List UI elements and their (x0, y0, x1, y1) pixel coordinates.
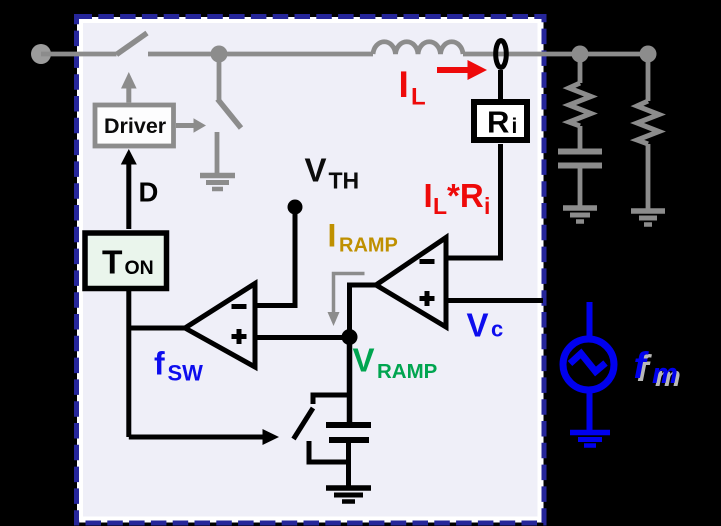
wire Vramp node to ramp capacitor (347, 337, 353, 425)
wire input to switch S1 (41, 52, 117, 57)
wire U2 minus input to Vth (255, 210, 295, 306)
Iramp direction arrow (gray) (328, 274, 365, 327)
svg-text:T: T (102, 245, 123, 282)
switch S1 (high-side, open arm) (117, 33, 148, 55)
op-amp U2 (fsw comparator) (185, 284, 255, 368)
ground (AC source, blue) (570, 433, 610, 446)
switching node junction (211, 46, 228, 63)
ground (low-side switch) (200, 176, 235, 190)
inductor L (373, 42, 463, 54)
wire to discharge switch with arrow (129, 435, 264, 440)
label IL*Ri (red) (424, 177, 491, 219)
wire S1 to switching node (148, 52, 219, 57)
Ton block (85, 233, 167, 289)
svg-text:V: V (467, 307, 489, 344)
ground (output branch 1) (563, 208, 597, 222)
svg-text:L: L (433, 193, 447, 219)
output node 2 (640, 46, 657, 63)
wire Ton output down (126, 291, 131, 437)
capacitor Cout plate bottom (558, 163, 602, 169)
svg-text:I: I (328, 218, 337, 254)
Ri box (474, 102, 527, 140)
label Vth (305, 152, 360, 194)
IL direction arrow (red) (437, 60, 487, 80)
svg-text:I: I (424, 177, 433, 214)
svg-text:SW: SW (168, 361, 204, 386)
label fsw (154, 346, 203, 386)
driver drive arrow (right to S2) (176, 118, 206, 132)
svg-text:L: L (411, 84, 426, 111)
switch S2 lower contact (215, 132, 220, 174)
wire node2 down (646, 54, 651, 101)
label IL (red) (399, 64, 426, 111)
label Iramp (olive) (328, 218, 398, 257)
driver drive arrow (up to S1) (121, 72, 137, 103)
wire U1 plus input (Vc) (446, 298, 543, 303)
svg-text:c: c (491, 317, 503, 342)
op-amp U1 (PWM comparator) (376, 238, 446, 328)
ground (ramp capacitor) (326, 488, 371, 502)
svg-text:TH: TH (329, 168, 360, 194)
svg-text:f: f (154, 346, 165, 382)
discharge switch S3 lower contact (309, 441, 349, 462)
ground (output branch 2) (631, 211, 665, 225)
svg-text:I: I (399, 64, 409, 105)
svg-text:RAMP: RAMP (339, 235, 398, 257)
svg-text:R: R (487, 105, 509, 140)
ramp capacitor plate top (326, 422, 371, 428)
svg-text:*R: *R (447, 177, 484, 214)
label fm (blue with gray shadow) (634, 345, 681, 393)
svg-text:V: V (353, 342, 375, 379)
wire sense loop to Ri (498, 70, 503, 101)
current sense loop (496, 41, 507, 68)
wire resistor to capacitor (578, 126, 583, 149)
AC source fm stem bottom (587, 390, 593, 430)
wire resistor to ground (646, 144, 651, 209)
svg-text:i: i (512, 115, 518, 138)
wire U1 minus input from Ri (446, 144, 501, 258)
node Vth (288, 200, 303, 215)
wire inductor to output (463, 52, 648, 57)
wire switching node down to switch S2 (217, 54, 222, 100)
svg-text:V: V (305, 152, 327, 189)
svg-text:m: m (652, 358, 678, 390)
wire ramp capacitor to ground (346, 440, 351, 487)
Driver box (95, 105, 174, 146)
resistor ESR (output branch 1) (569, 83, 591, 126)
node Vramp (342, 329, 358, 345)
switch S2 (low-side, open arm) (218, 99, 242, 128)
svg-text:Driver: Driver (104, 114, 167, 138)
wire U1 output to Vramp node (350, 285, 377, 330)
resistor load (output branch 2) (637, 101, 659, 144)
wire capacitor to ground (578, 168, 583, 206)
label Vramp (green) (353, 342, 438, 384)
D arrow (Ton to Driver) (121, 149, 137, 229)
AC source fm stem top (587, 302, 593, 340)
wire switching node to inductor (219, 52, 373, 57)
discharge switch S3 upper contact (313, 395, 349, 404)
svg-text:D: D (139, 177, 159, 208)
ramp capacitor plate bottom (329, 437, 369, 443)
AC source fm circle (563, 339, 614, 390)
wire node1 down (578, 54, 583, 83)
capacitor Cout plate top (558, 149, 602, 155)
AC source sine wave (570, 354, 606, 372)
svg-text:RAMP: RAMP (377, 360, 437, 383)
discharge switch S3 arm (294, 408, 314, 439)
svg-text:i: i (484, 193, 490, 219)
converter module boundary (dashed box) (77, 17, 545, 524)
output node 1 (572, 46, 589, 63)
input terminal node (31, 44, 51, 64)
label Vc (467, 307, 504, 344)
wire U2 output to Ton line (129, 326, 185, 331)
wire U2 plus input from Vramp node (255, 335, 350, 340)
svg-text:ON: ON (125, 257, 154, 279)
